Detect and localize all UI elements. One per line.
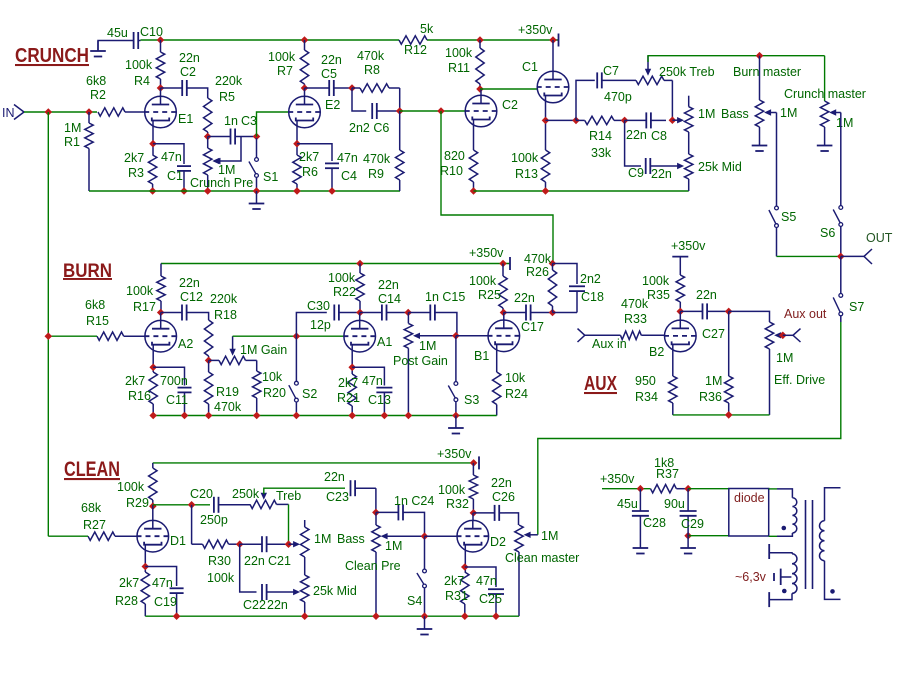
label 47n C13 (362, 374, 383, 388)
label R11 (448, 61, 470, 75)
label +350v aux (671, 239, 706, 253)
wire cathode to C19 (145, 567, 176, 587)
label C17 (521, 320, 544, 334)
svg-text:C9: C9 (628, 166, 644, 180)
label 2k7 R3 (124, 151, 144, 165)
terminal 6.3v bottom (768, 592, 770, 607)
capacitor C26 22n (473, 505, 505, 521)
node E2 plate (301, 84, 309, 92)
label C18 (581, 290, 604, 304)
resistor R29 100k (149, 463, 157, 505)
svg-text:47n: 47n (476, 574, 497, 588)
svg-text:R24: R24 (505, 387, 528, 401)
svg-text:25k Mid: 25k Mid (698, 160, 742, 174)
wire hv winding top lead (777, 489, 792, 498)
label S2 (302, 387, 317, 401)
label 45u (617, 497, 638, 511)
triode E1 (144, 96, 177, 128)
wire crunch ground rail (89, 190, 400, 192)
svg-text:R10: R10 (440, 164, 463, 178)
label S3 (464, 393, 479, 407)
node burn rail at R20 (253, 412, 261, 420)
wire C9 to mid wiper (650, 165, 677, 167)
svg-text:R30: R30 (208, 554, 231, 568)
wire box to hv winding top (769, 488, 777, 490)
wire C12 to R18 (196, 313, 209, 321)
capacitor C30 12p (334, 305, 360, 321)
label C12 (180, 290, 203, 304)
resistor R28 2k7 (141, 572, 149, 616)
svg-text:C1: C1 (167, 169, 183, 183)
section label CLEAN (64, 458, 120, 481)
label R9 (368, 167, 384, 181)
node C5/R8 junction (348, 84, 356, 92)
svg-text:R32: R32 (446, 497, 469, 511)
resistor R24 10k (493, 372, 501, 416)
resistor R34 950 (669, 376, 677, 415)
label R12 (404, 43, 427, 57)
resistor R31 2k7 (461, 572, 469, 616)
wire C24 to wiper node (409, 512, 425, 536)
node A1 cathode junction (348, 364, 356, 372)
resistor R25 100k (499, 264, 507, 313)
svg-text:1M: 1M (419, 339, 436, 353)
label 100k R35 (642, 274, 670, 288)
ground at S4 (417, 616, 433, 634)
label R24 (505, 387, 528, 401)
svg-text:6k8: 6k8 (85, 298, 105, 312)
label 22n C23 (324, 470, 345, 484)
svg-text:R29: R29 (126, 496, 149, 510)
triode A1 (343, 320, 376, 352)
resistor R15 6k8 (97, 332, 145, 340)
wire treb right down (671, 80, 673, 119)
node E1 plate (157, 84, 165, 92)
label 47n C25 (476, 574, 497, 588)
label 220k R18 (210, 292, 238, 306)
svg-text:100k: 100k (268, 50, 296, 64)
node C2 plate (476, 85, 484, 93)
capacitor C5 22n (305, 80, 353, 96)
label 22n C22 (267, 598, 288, 612)
label 2n2 C18 (580, 272, 601, 286)
wire center tap (781, 576, 792, 578)
svg-text:470k: 470k (524, 252, 552, 266)
label 470k R9 (363, 152, 391, 166)
label A2 (178, 337, 193, 351)
+350v supply tick clean (478, 456, 480, 469)
label C1 (167, 169, 183, 183)
terminal tick 6.3v label (773, 573, 775, 581)
node D1 cathode junction (142, 563, 150, 571)
resistor R26 470k (548, 264, 556, 313)
svg-text:Eff. Drive: Eff. Drive (774, 373, 825, 387)
svg-text:R18: R18 (214, 308, 237, 322)
node D1 plate (149, 502, 157, 510)
svg-text:33k: 33k (591, 146, 612, 160)
resistor R35 100k (676, 257, 684, 312)
capacitor C17 22n (504, 305, 553, 321)
capacitor C7 470p (597, 72, 636, 88)
label 2n2 C6 (349, 121, 389, 135)
node C1 cathode junction (542, 117, 550, 125)
label Treb clean (276, 489, 301, 503)
resistor R11 100k (476, 40, 484, 89)
wire C18 branch (553, 264, 578, 285)
svg-text:+350v: +350v (671, 239, 706, 253)
svg-text:R34: R34 (635, 390, 658, 404)
svg-text:C5: C5 (321, 67, 337, 81)
label R7 (277, 64, 293, 78)
capacitor C19 47n (170, 588, 184, 616)
svg-text:100k: 100k (511, 151, 539, 165)
wire D2 cathode (464, 545, 466, 573)
svg-text:Crunch master: Crunch master (784, 87, 866, 101)
capacitor C21 22n (240, 536, 289, 552)
node burn rail at R16 (149, 412, 157, 420)
svg-text:S5: S5 (781, 210, 796, 224)
label R30 (208, 554, 231, 568)
label C4 (341, 169, 357, 183)
node R3 bottom (149, 187, 157, 195)
label 10k R24 (505, 371, 526, 385)
label 10k R20 (262, 370, 283, 384)
node C28 junction (637, 485, 645, 493)
svg-text:R36: R36 (699, 390, 722, 404)
label 250k clean treb (232, 487, 260, 501)
label +350v burn (469, 246, 504, 260)
label C13 (368, 393, 391, 407)
svg-text:100k: 100k (207, 571, 235, 585)
ground at C28 (633, 516, 649, 554)
node pot bottom (204, 187, 212, 195)
svg-text:90u: 90u (664, 497, 685, 511)
svg-text:A2: A2 (178, 337, 193, 351)
capacitor C2 22n (161, 80, 194, 96)
section label CRUNCH (15, 44, 89, 67)
resistor R36 1M (725, 311, 733, 415)
svg-text:CLEAN: CLEAN (64, 458, 120, 481)
wire cathode to C4 (297, 144, 332, 161)
wire secondary bottom lead (825, 561, 841, 600)
svg-text:R27: R27 (83, 518, 106, 532)
svg-text:CRUNCH: CRUNCH (15, 44, 89, 67)
label Aux in (592, 337, 627, 351)
resistor R5 220k (204, 98, 212, 137)
label 2k7 R31 (444, 574, 464, 588)
terminal 6.3v top (768, 544, 770, 559)
svg-text:22n: 22n (626, 128, 647, 142)
label 470k R26 (524, 252, 552, 266)
label C29 (681, 517, 704, 531)
label 100k R11 (445, 46, 473, 60)
resistor R16 2k7 (149, 372, 157, 416)
wire crunch master drop (824, 56, 826, 101)
node C1 bottom (180, 187, 188, 195)
svg-text:10k: 10k (262, 370, 283, 384)
label 1M crunch master (836, 116, 853, 130)
node R14/C8/C9 junction (621, 117, 629, 125)
svg-text:R5: R5 (219, 90, 235, 104)
svg-text:R8: R8 (364, 63, 380, 77)
svg-text:C23: C23 (326, 490, 349, 504)
label R31 (445, 589, 468, 603)
svg-text:R35: R35 (647, 288, 670, 302)
label R5 (219, 90, 235, 104)
svg-text:C20: C20 (190, 487, 213, 501)
triode E2 (288, 96, 321, 128)
switch S7 (833, 256, 842, 322)
connector Aux out jack (793, 329, 801, 342)
wire mix node down to burn (441, 111, 553, 264)
node burn rail at R21 (348, 412, 356, 420)
wire B2 plate lead (679, 311, 681, 320)
capacitor C14 22n (360, 305, 408, 321)
svg-text:C30: C30 (307, 299, 330, 313)
svg-text:5k: 5k (420, 22, 434, 36)
svg-text:470k: 470k (357, 49, 385, 63)
label E1 (178, 112, 193, 126)
resistor R37 1k8 (651, 485, 689, 493)
label 100k R29 (117, 480, 145, 494)
svg-text:E2: E2 (325, 98, 340, 112)
wire C30 branch (296, 313, 326, 337)
label C2 tube (502, 98, 518, 112)
ground at C10 (90, 41, 106, 57)
svg-text:R21: R21 (337, 391, 360, 405)
node E1 cathode junction (149, 140, 157, 148)
svg-text:25k Mid: 25k Mid (313, 584, 357, 598)
label Aux out (784, 307, 827, 321)
+350v supply tick crunch (558, 34, 560, 47)
node A2 plate (157, 309, 165, 317)
label 1M clean bass (314, 532, 331, 546)
label R13 (515, 167, 538, 181)
label Crunch master (784, 87, 866, 101)
label 100k R32 (438, 483, 466, 497)
svg-text:47n: 47n (362, 374, 383, 388)
transformer core (806, 500, 813, 589)
label C19 (154, 595, 177, 609)
node burn rail at R19 (205, 412, 213, 420)
label R32 (446, 497, 469, 511)
node B2 plate (677, 308, 685, 316)
label 2k7 R6 (299, 150, 319, 164)
label R3 (128, 166, 144, 180)
svg-text:45u: 45u (107, 26, 128, 40)
svg-text:C19: C19 (154, 595, 177, 609)
svg-text:22n: 22n (321, 53, 342, 67)
svg-text:68k: 68k (81, 501, 102, 515)
label R25 (478, 288, 501, 302)
svg-text:C11: C11 (166, 393, 188, 407)
svg-text:6k8: 6k8 (86, 74, 106, 88)
svg-text:100k: 100k (445, 46, 473, 60)
node R11 top (476, 36, 484, 44)
wire C2 to R5 (193, 88, 208, 98)
svg-text:diode: diode (734, 491, 765, 505)
svg-text:100k: 100k (438, 483, 466, 497)
node R26 bottom (549, 309, 557, 317)
wire aux ground rail (673, 414, 770, 416)
svg-text:R16: R16 (128, 389, 151, 403)
label 1M Gain (240, 343, 287, 357)
label 700n (160, 374, 188, 388)
label 33k (591, 146, 612, 160)
node clean rail at C25 (492, 612, 500, 620)
wire to B1 grid (456, 335, 488, 337)
capacitor C15 1n (408, 305, 440, 321)
capacitor C10 (120, 32, 141, 49)
resistor R3 2k7 (148, 155, 156, 191)
label R20 (263, 386, 286, 400)
label C10 (140, 25, 163, 39)
label C30 (307, 299, 330, 313)
potentiometer Crunch master 1M (820, 101, 840, 127)
label 22n C9 (651, 167, 672, 181)
svg-text:100k: 100k (117, 480, 145, 494)
svg-text:2k7: 2k7 (299, 150, 319, 164)
triode B1 (488, 320, 521, 352)
capacitor C9 22n (646, 158, 651, 174)
connector Aux in jack (578, 329, 585, 342)
svg-text:2k7: 2k7 (338, 376, 358, 390)
node clean bass junction (285, 540, 293, 548)
capacitor C3 1n (208, 129, 257, 145)
potentiometer Post Gain 1M (404, 313, 456, 416)
resistor R21 2k7 (348, 374, 356, 416)
wire cathode to C11 (153, 367, 184, 385)
label Eff. Drive (774, 373, 825, 387)
label 5k (420, 22, 434, 36)
capacitor C27 22n (680, 303, 728, 319)
label 22n C27 (696, 288, 717, 302)
svg-text:2k7: 2k7 (125, 374, 145, 388)
label Bass (721, 107, 749, 121)
wire 6.3v top lead (770, 553, 792, 554)
wire cathode to C25 (465, 567, 496, 587)
node D2 plate (470, 509, 478, 517)
wire D1 plate to C20 (153, 504, 210, 506)
label Crunch Pre (190, 176, 253, 190)
svg-text:~6,3v: ~6,3v (735, 570, 767, 584)
label 100k R30 (207, 571, 235, 585)
svg-text:1M: 1M (698, 107, 715, 121)
resistor R8 470k (352, 84, 400, 92)
wire bus to R27 (48, 535, 88, 537)
wire C23 down to pot (375, 488, 377, 512)
label 47n C19 (152, 576, 173, 590)
svg-text:100k: 100k (469, 274, 497, 288)
label 1M bass (698, 107, 715, 121)
node R25 top (499, 260, 507, 268)
svg-text:OUT: OUT (866, 231, 893, 245)
svg-text:1M: 1M (314, 532, 331, 546)
label 22n C26 (491, 476, 512, 490)
label C26 (492, 490, 515, 504)
wire A2 cathode (152, 345, 154, 373)
label 12p (310, 318, 331, 332)
label 22n C14 (378, 278, 399, 292)
svg-text:220k: 220k (215, 74, 243, 88)
svg-text:22n: 22n (267, 598, 288, 612)
svg-text:R17: R17 (133, 300, 156, 314)
capacitor C6 2n2 (372, 103, 400, 119)
resistor R12 5k (399, 36, 427, 44)
svg-text:250k Treb: 250k Treb (659, 65, 715, 79)
svg-text:1n C15: 1n C15 (425, 290, 465, 304)
label Bass clean (337, 532, 365, 546)
node burn master top (756, 52, 764, 60)
node R30 branch (188, 501, 196, 509)
label S1 (263, 170, 278, 184)
wire A2 plate lead (160, 313, 162, 321)
svg-text:22n: 22n (491, 476, 512, 490)
capacitor C24 1n (376, 504, 409, 520)
capacitor C11 700n (178, 388, 192, 416)
svg-text:C1: C1 (522, 60, 538, 74)
svg-text:470k: 470k (621, 297, 649, 311)
wire D2 plate lead (472, 513, 474, 521)
svg-text:C27: C27 (702, 327, 725, 341)
svg-text:R15: R15 (86, 314, 109, 328)
label 2k7 R16 (125, 374, 145, 388)
svg-text:1n C24: 1n C24 (394, 494, 434, 508)
resistor R33 470k (585, 331, 665, 339)
svg-text:22n: 22n (179, 276, 200, 290)
wire C22 branch (240, 544, 257, 592)
node C29 bottom (684, 532, 692, 540)
label D1 (170, 534, 186, 548)
label C9 (628, 166, 644, 180)
wire cathode to C1 cap (153, 144, 184, 164)
capacitor C25 47n (488, 589, 504, 616)
svg-text:1M: 1M (64, 121, 81, 135)
node C7/R14 junction (572, 117, 580, 125)
svg-text:R1: R1 (64, 135, 80, 149)
wire C10 to ground (98, 41, 120, 51)
label 68k R27 (81, 501, 102, 515)
wire R37 to diode box (688, 488, 729, 490)
resistor R22 100k (356, 264, 364, 313)
label R16 (128, 389, 151, 403)
svg-text:22n: 22n (179, 51, 200, 65)
svg-text:+350v: +350v (469, 246, 504, 260)
node S1 ground (253, 187, 261, 195)
node R22 top (356, 260, 364, 268)
label C22 (243, 598, 266, 612)
resistor R2 6k8 (98, 108, 145, 116)
svg-text:C7: C7 (603, 64, 619, 78)
svg-text:22n: 22n (651, 167, 672, 181)
svg-text:10k: 10k (505, 371, 526, 385)
label R35 (647, 288, 670, 302)
svg-text:S7: S7 (849, 300, 864, 314)
svg-text:700n: 700n (160, 374, 188, 388)
wire C15 to B1 grid corner (440, 313, 457, 336)
svg-text:C18: C18 (581, 290, 604, 304)
node C2 grid junction (437, 107, 445, 115)
label 47n C1 (161, 150, 182, 164)
node C10/R4 junction (157, 36, 165, 44)
triode C2 (465, 95, 498, 127)
potentiometer Crunch Pre 1M (204, 137, 220, 192)
label C28 (643, 516, 666, 530)
wire C2 plate lead (480, 89, 482, 95)
svg-text:BURN: BURN (63, 260, 112, 282)
label 470p (604, 90, 632, 104)
svg-text:Clean Pre: Clean Pre (345, 559, 401, 573)
